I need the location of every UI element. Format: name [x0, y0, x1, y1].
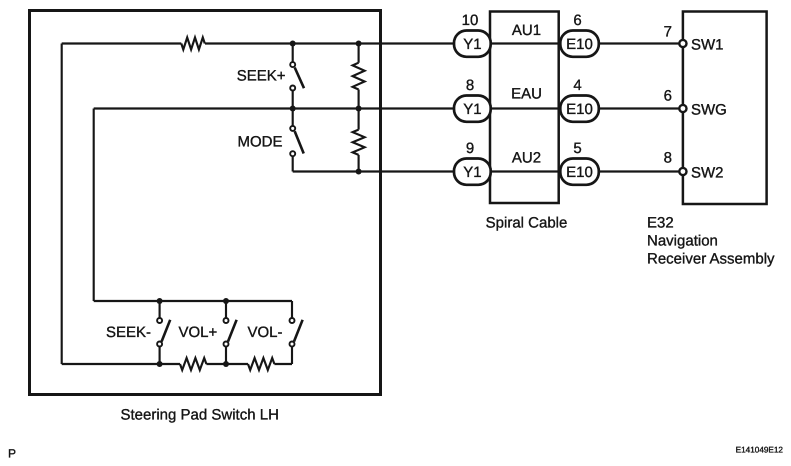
- svg-text:MODE: MODE: [238, 133, 283, 150]
- switch SEEK- blade: [162, 320, 171, 342]
- svg-text:AU1: AU1: [512, 22, 541, 39]
- switch SEEK+ blade: [295, 68, 304, 89]
- switch SEEK- vertical leads: [159, 301, 161, 364]
- resistor R-bottom-2: [248, 358, 274, 370]
- svg-text:Y1: Y1: [463, 36, 481, 53]
- switch VOL+ vertical leads: [225, 301, 227, 364]
- svg-text:SEEK+: SEEK+: [237, 68, 286, 85]
- svg-text:10: 10: [462, 12, 479, 29]
- svg-text:Y1: Y1: [463, 101, 481, 118]
- terminal SW1: [679, 40, 686, 47]
- connector Y1 pin10: [454, 31, 491, 57]
- wire W3 horizontal: [293, 170, 454, 172]
- switch VOL+ contacts: [224, 318, 229, 323]
- connector Y1 pin9: [454, 159, 491, 185]
- switch SEEK- contacts: [157, 318, 162, 323]
- svg-text:6: 6: [664, 88, 672, 105]
- svg-text:VOL+: VOL+: [179, 324, 218, 341]
- spiral cable box: [490, 12, 559, 204]
- wire inside spiral cable W1: [491, 42, 560, 44]
- terminal SW2: [679, 168, 686, 175]
- wire bottom-section top rail: [94, 300, 292, 302]
- wire E10-3 to nav pin8: [599, 170, 683, 172]
- resistor R2 vertical between W2 and W3: [358, 109, 360, 172]
- wire inside spiral cable W3: [491, 170, 560, 172]
- junction dots: [290, 41, 296, 47]
- svg-text:4: 4: [573, 77, 581, 94]
- svg-text:9: 9: [466, 140, 474, 157]
- svg-text:Receiver Assembly: Receiver Assembly: [647, 251, 775, 268]
- switch MODE vertical leads: [292, 109, 294, 172]
- svg-text:5: 5: [573, 140, 581, 157]
- svg-text:SEEK-: SEEK-: [106, 324, 151, 341]
- switch VOL+ blade: [228, 320, 237, 342]
- switch VOL- vertical leads: [291, 301, 293, 364]
- svg-text:6: 6: [573, 12, 581, 29]
- wire E10-2 to nav pin6: [599, 107, 683, 109]
- switch MODE blade: [295, 131, 304, 153]
- svg-text:AU2: AU2: [512, 150, 541, 167]
- switch VOL- blade: [294, 320, 303, 342]
- connector E10 pin4: [560, 96, 599, 122]
- svg-text:Spiral Cable: Spiral Cable: [486, 215, 568, 232]
- svg-text:Navigation: Navigation: [647, 233, 718, 250]
- svg-text:Y1: Y1: [463, 164, 481, 181]
- connector E10 pin6: [560, 31, 599, 57]
- svg-text:SW1: SW1: [691, 37, 724, 54]
- wire W1 horizontal top: [62, 42, 454, 44]
- svg-text:7: 7: [664, 24, 672, 41]
- terminal SWG: [679, 105, 686, 112]
- svg-text:E32: E32: [647, 215, 674, 232]
- resistor R-bottom-1: [180, 358, 206, 370]
- outer box Steering Pad Switch LH: [30, 11, 381, 395]
- svg-text:E141049E12: E141049E12: [736, 446, 784, 455]
- svg-text:VOL-: VOL-: [248, 324, 283, 341]
- wire bottom-section bottom rail: [62, 363, 292, 365]
- navigation receiver box E32: [683, 12, 767, 205]
- wire E10-1 to nav pin7: [599, 42, 683, 44]
- connector E10 pin5: [560, 159, 599, 185]
- wire inside spiral cable W2: [491, 107, 560, 109]
- connector Y1 pin8: [454, 96, 491, 122]
- resistor R1 vertical between W1 and W2: [358, 44, 360, 109]
- wire W2 left vertical drop: [93, 109, 95, 302]
- svg-text:E10: E10: [566, 164, 593, 181]
- svg-text:Steering Pad Switch LH: Steering Pad Switch LH: [120, 407, 278, 424]
- svg-text:8: 8: [466, 77, 474, 94]
- svg-text:8: 8: [664, 150, 672, 167]
- svg-text:EAU: EAU: [511, 86, 542, 103]
- wire W1 left vertical drop: [61, 44, 63, 365]
- svg-text:P: P: [8, 447, 16, 461]
- switch VOL- contacts: [290, 318, 295, 323]
- wire W2 horizontal: [94, 107, 454, 109]
- svg-text:E10: E10: [566, 36, 593, 53]
- switch SEEK+ contacts: [290, 62, 295, 67]
- svg-text:SWG: SWG: [691, 102, 727, 119]
- svg-text:E10: E10: [566, 101, 593, 118]
- resistor R-top in wire W1: [181, 38, 204, 50]
- switch MODE contacts: [290, 126, 295, 131]
- switch SEEK+ vertical leads: [292, 44, 294, 109]
- svg-text:SW2: SW2: [691, 165, 724, 182]
